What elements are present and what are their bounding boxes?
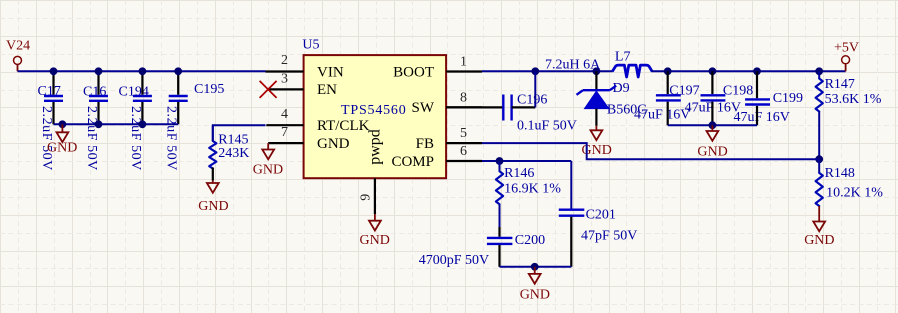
svg-text:C196: C196 <box>517 93 547 108</box>
svg-text:TPS54560: TPS54560 <box>341 103 407 118</box>
capacitor C17 <box>38 71 64 171</box>
svg-text:C199: C199 <box>773 91 803 106</box>
junction C198/output rail <box>709 67 717 75</box>
svg-text:0.1uF 50V: 0.1uF 50V <box>517 119 577 134</box>
svg-text:GND: GND <box>520 287 550 302</box>
resistor R148 <box>816 159 884 206</box>
IC U5 TPS54560 body <box>302 38 446 179</box>
svg-text:R148: R148 <box>825 166 855 181</box>
junction dot compensation bus <box>531 263 539 271</box>
ground compensation bus <box>520 267 550 303</box>
wire output cap ground bus <box>668 124 757 126</box>
svg-text:GND: GND <box>253 163 283 178</box>
capacitor C199 <box>734 71 804 125</box>
junction C194/input bus <box>139 120 147 128</box>
wire L7 to +5V rail <box>652 70 846 72</box>
svg-text:D9: D9 <box>613 81 630 96</box>
svg-text:9: 9 <box>358 194 373 201</box>
junction dot BOOT/C196 <box>531 67 539 75</box>
svg-text:3: 3 <box>281 71 288 86</box>
ground pin 9 <box>360 214 390 248</box>
capacitor C195 <box>164 71 225 171</box>
ground R148 <box>804 206 834 248</box>
svg-text:2.2uF 50V: 2.2uF 50V <box>128 106 143 171</box>
inductor L7 <box>545 50 652 78</box>
svg-text:10.2K 1%: 10.2K 1% <box>826 186 883 201</box>
svg-text:GND: GND <box>697 145 727 160</box>
node +5V power port <box>834 41 859 72</box>
wire FB pin 5 to divider <box>482 143 819 159</box>
svg-text:16.9K 1%: 16.9K 1% <box>504 182 561 197</box>
svg-text:BOOT: BOOT <box>393 64 434 80</box>
node V24 power port <box>6 39 30 72</box>
junction dot SW/D9 <box>593 67 601 75</box>
wire U5 pin 4 to R145 <box>213 125 266 141</box>
capacitor C197 <box>634 71 700 125</box>
svg-text:GND: GND <box>360 233 390 248</box>
svg-text:GND: GND <box>198 199 228 214</box>
svg-text:GND: GND <box>47 141 77 156</box>
svg-text:2.2uF 50V: 2.2uF 50V <box>164 106 179 171</box>
junction C195/V24 rail <box>174 67 182 75</box>
pin 1 BOOT <box>393 55 482 81</box>
pin 4 RT/CLK <box>266 107 369 134</box>
svg-text:C16: C16 <box>83 85 106 100</box>
svg-text:7.2uH 6A: 7.2uH 6A <box>545 57 601 72</box>
svg-text:COMP: COMP <box>391 154 434 170</box>
svg-text:47uF 16V: 47uF 16V <box>734 110 790 125</box>
svg-text:4: 4 <box>281 107 288 122</box>
ground input bus <box>47 124 77 155</box>
ground output bus <box>697 125 727 159</box>
ground pin 7 <box>253 143 283 177</box>
junction C197/output rail <box>664 67 672 75</box>
ground R145 <box>198 181 228 214</box>
svg-text:+5V: +5V <box>834 41 859 56</box>
junction R147/output rail <box>815 67 823 75</box>
svg-text:1: 1 <box>460 55 467 70</box>
svg-text:V24: V24 <box>6 39 30 54</box>
wire compensation ground bus <box>500 266 572 268</box>
capacitor C201 <box>559 161 638 267</box>
svg-text:47pF 50V: 47pF 50V <box>581 229 637 244</box>
svg-text:C200: C200 <box>515 233 545 248</box>
svg-text:2.2uF 50V: 2.2uF 50V <box>84 106 99 171</box>
resistor R146 <box>496 161 561 237</box>
resistor R147 <box>816 71 882 159</box>
pin 6 COMP <box>391 144 482 170</box>
svg-text:L7: L7 <box>615 50 631 65</box>
wire C196 to BOOT junction <box>512 106 536 108</box>
capacitor C198 <box>685 71 754 125</box>
junction ground tap on input bus <box>59 120 67 128</box>
junction dot COMP/R146 <box>496 157 504 165</box>
svg-text:53.6K 1%: 53.6K 1% <box>825 92 882 107</box>
svg-text:R146: R146 <box>504 166 534 181</box>
junction C16/V24 rail <box>95 67 103 75</box>
wire SW pin 8 to C196 <box>446 106 503 108</box>
svg-text:C194: C194 <box>119 85 149 100</box>
svg-text:243K: 243K <box>218 146 249 161</box>
ground D9 <box>582 126 612 158</box>
svg-text:C195: C195 <box>194 82 224 97</box>
svg-text:GND: GND <box>804 233 834 248</box>
pin 7 GND <box>268 125 349 152</box>
svg-text:7: 7 <box>281 125 288 140</box>
junction dot output ground bus <box>709 121 717 129</box>
svg-text:U5: U5 <box>302 38 319 53</box>
svg-text:R147: R147 <box>825 77 855 92</box>
svg-text:SW: SW <box>412 100 435 116</box>
wire input cap ground bus <box>54 123 179 125</box>
wire COMP pin 6 to C201 <box>482 160 571 162</box>
capacitor C200 <box>419 233 545 268</box>
svg-text:C198: C198 <box>723 83 753 98</box>
junction C16/input bus <box>95 120 103 128</box>
svg-text:pwpd: pwpd <box>367 129 384 165</box>
junction C17/V24 rail <box>50 67 58 75</box>
pin 2 VIN <box>266 53 344 80</box>
pin 8 SW <box>412 90 483 116</box>
svg-text:GND: GND <box>317 136 350 152</box>
svg-text:2.2uF 50V: 2.2uF 50V <box>39 106 54 171</box>
diode D9 B560C <box>577 71 647 126</box>
svg-text:4700pF 50V: 4700pF 50V <box>419 253 489 268</box>
svg-text:47uF 16V: 47uF 16V <box>634 107 690 122</box>
pin 3 EN with no-ERC X <box>260 71 338 98</box>
svg-text:5: 5 <box>460 126 467 141</box>
svg-text:C201: C201 <box>586 208 616 223</box>
svg-text:EN: EN <box>317 82 337 98</box>
junction C194/V24 rail <box>139 67 147 75</box>
pin 5 FB <box>416 126 482 152</box>
capacitor C196 <box>503 93 577 134</box>
svg-text:VIN: VIN <box>317 64 344 80</box>
capacitor C16 <box>83 71 108 171</box>
junction C199/output rail <box>753 67 761 75</box>
junction dot FB divider <box>815 155 823 163</box>
svg-text:6: 6 <box>460 144 467 159</box>
svg-text:2: 2 <box>281 53 288 68</box>
resistor R145 <box>209 125 249 180</box>
pin 9 pwpd bottom <box>358 178 375 214</box>
wire BOOT rail to L7 <box>482 70 613 72</box>
svg-text:8: 8 <box>460 90 467 105</box>
capacitor C194 <box>119 71 152 171</box>
wire V24 rail to U5 pin 2 <box>18 70 266 72</box>
svg-text:FB: FB <box>416 136 434 152</box>
svg-text:RT/CLK: RT/CLK <box>317 118 370 134</box>
